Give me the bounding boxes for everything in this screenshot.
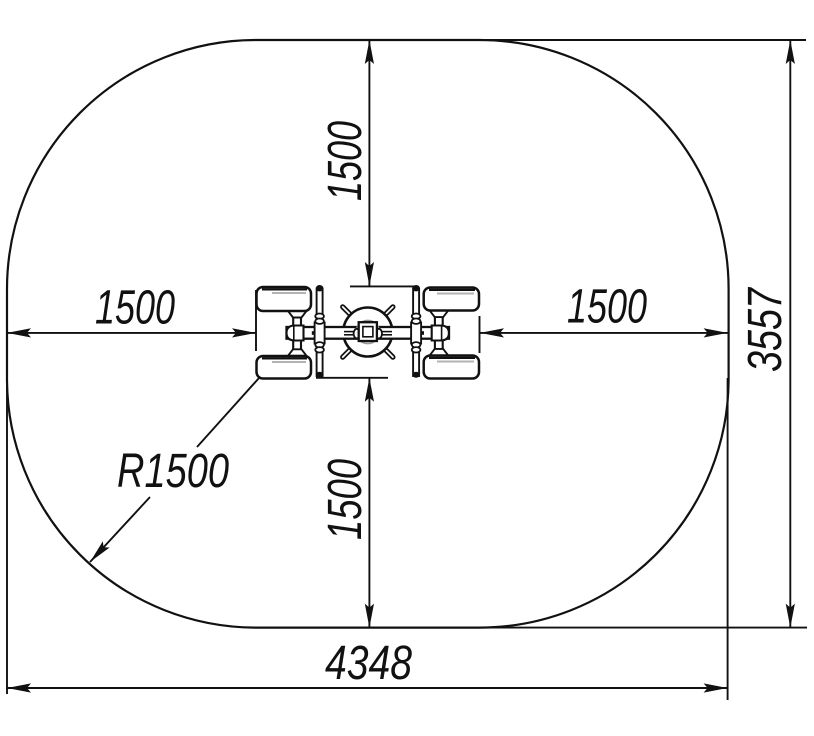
left seat post <box>293 310 301 357</box>
hub side tabs <box>354 329 360 339</box>
extension line equipment bottom <box>316 377 388 379</box>
springer equipment (top view) <box>257 285 480 379</box>
hub gray ring <box>356 321 379 344</box>
beam dot right <box>420 331 424 335</box>
seat left bottom <box>257 356 312 379</box>
right handlebar <box>411 285 421 378</box>
seat right bottom <box>424 356 479 379</box>
right post top junction <box>429 307 448 312</box>
extension line right (for 4348) <box>727 378 729 700</box>
svg-text:1500: 1500 <box>319 121 372 201</box>
svg-text:4348: 4348 <box>325 637 412 690</box>
axle rods <box>344 331 356 333</box>
dimension line 3557 right vertical <box>786 40 795 628</box>
svg-text:1500: 1500 <box>567 281 647 334</box>
extension line top (for 3557) <box>479 39 806 41</box>
dimension line 1500 right horizontal <box>480 328 728 337</box>
main beam <box>287 327 450 339</box>
hub inner square <box>363 327 373 337</box>
dimension line 4348 bottom horizontal <box>7 683 728 692</box>
seat right top <box>424 288 479 311</box>
left handlebar <box>315 285 325 378</box>
left beam clamp <box>287 326 304 341</box>
extension line equipment left <box>255 290 257 351</box>
seat left top <box>257 287 312 311</box>
spring circle <box>343 308 392 357</box>
svg-text:R1500: R1500 <box>117 445 229 498</box>
right seat post <box>435 310 443 357</box>
svg-text:1500: 1500 <box>319 459 372 540</box>
spring spokes <box>343 307 393 357</box>
left post bottom junction <box>288 354 307 359</box>
extension line bottom (for 3557) <box>479 627 807 629</box>
svg-text:1500: 1500 <box>95 282 175 335</box>
extension line equipment right <box>479 316 481 353</box>
safety zone outline (rounded rectangle 4348x3557 R1500) <box>7 40 729 628</box>
dimension line 1500 left horizontal <box>7 328 256 337</box>
svg-text:3557: 3557 <box>739 286 792 372</box>
dimension line 1500 top vertical <box>365 40 374 286</box>
right post bottom junction <box>429 354 448 359</box>
hub outer square <box>359 322 377 341</box>
left post top junction <box>288 308 307 313</box>
extension line equipment top <box>350 285 417 287</box>
beam dot left <box>312 331 316 335</box>
extension line left (for 4348) <box>6 378 8 694</box>
right beam clamp <box>432 326 449 341</box>
dimension line 1500 bottom vertical <box>365 378 374 628</box>
leader line R1500 <box>87 378 259 565</box>
